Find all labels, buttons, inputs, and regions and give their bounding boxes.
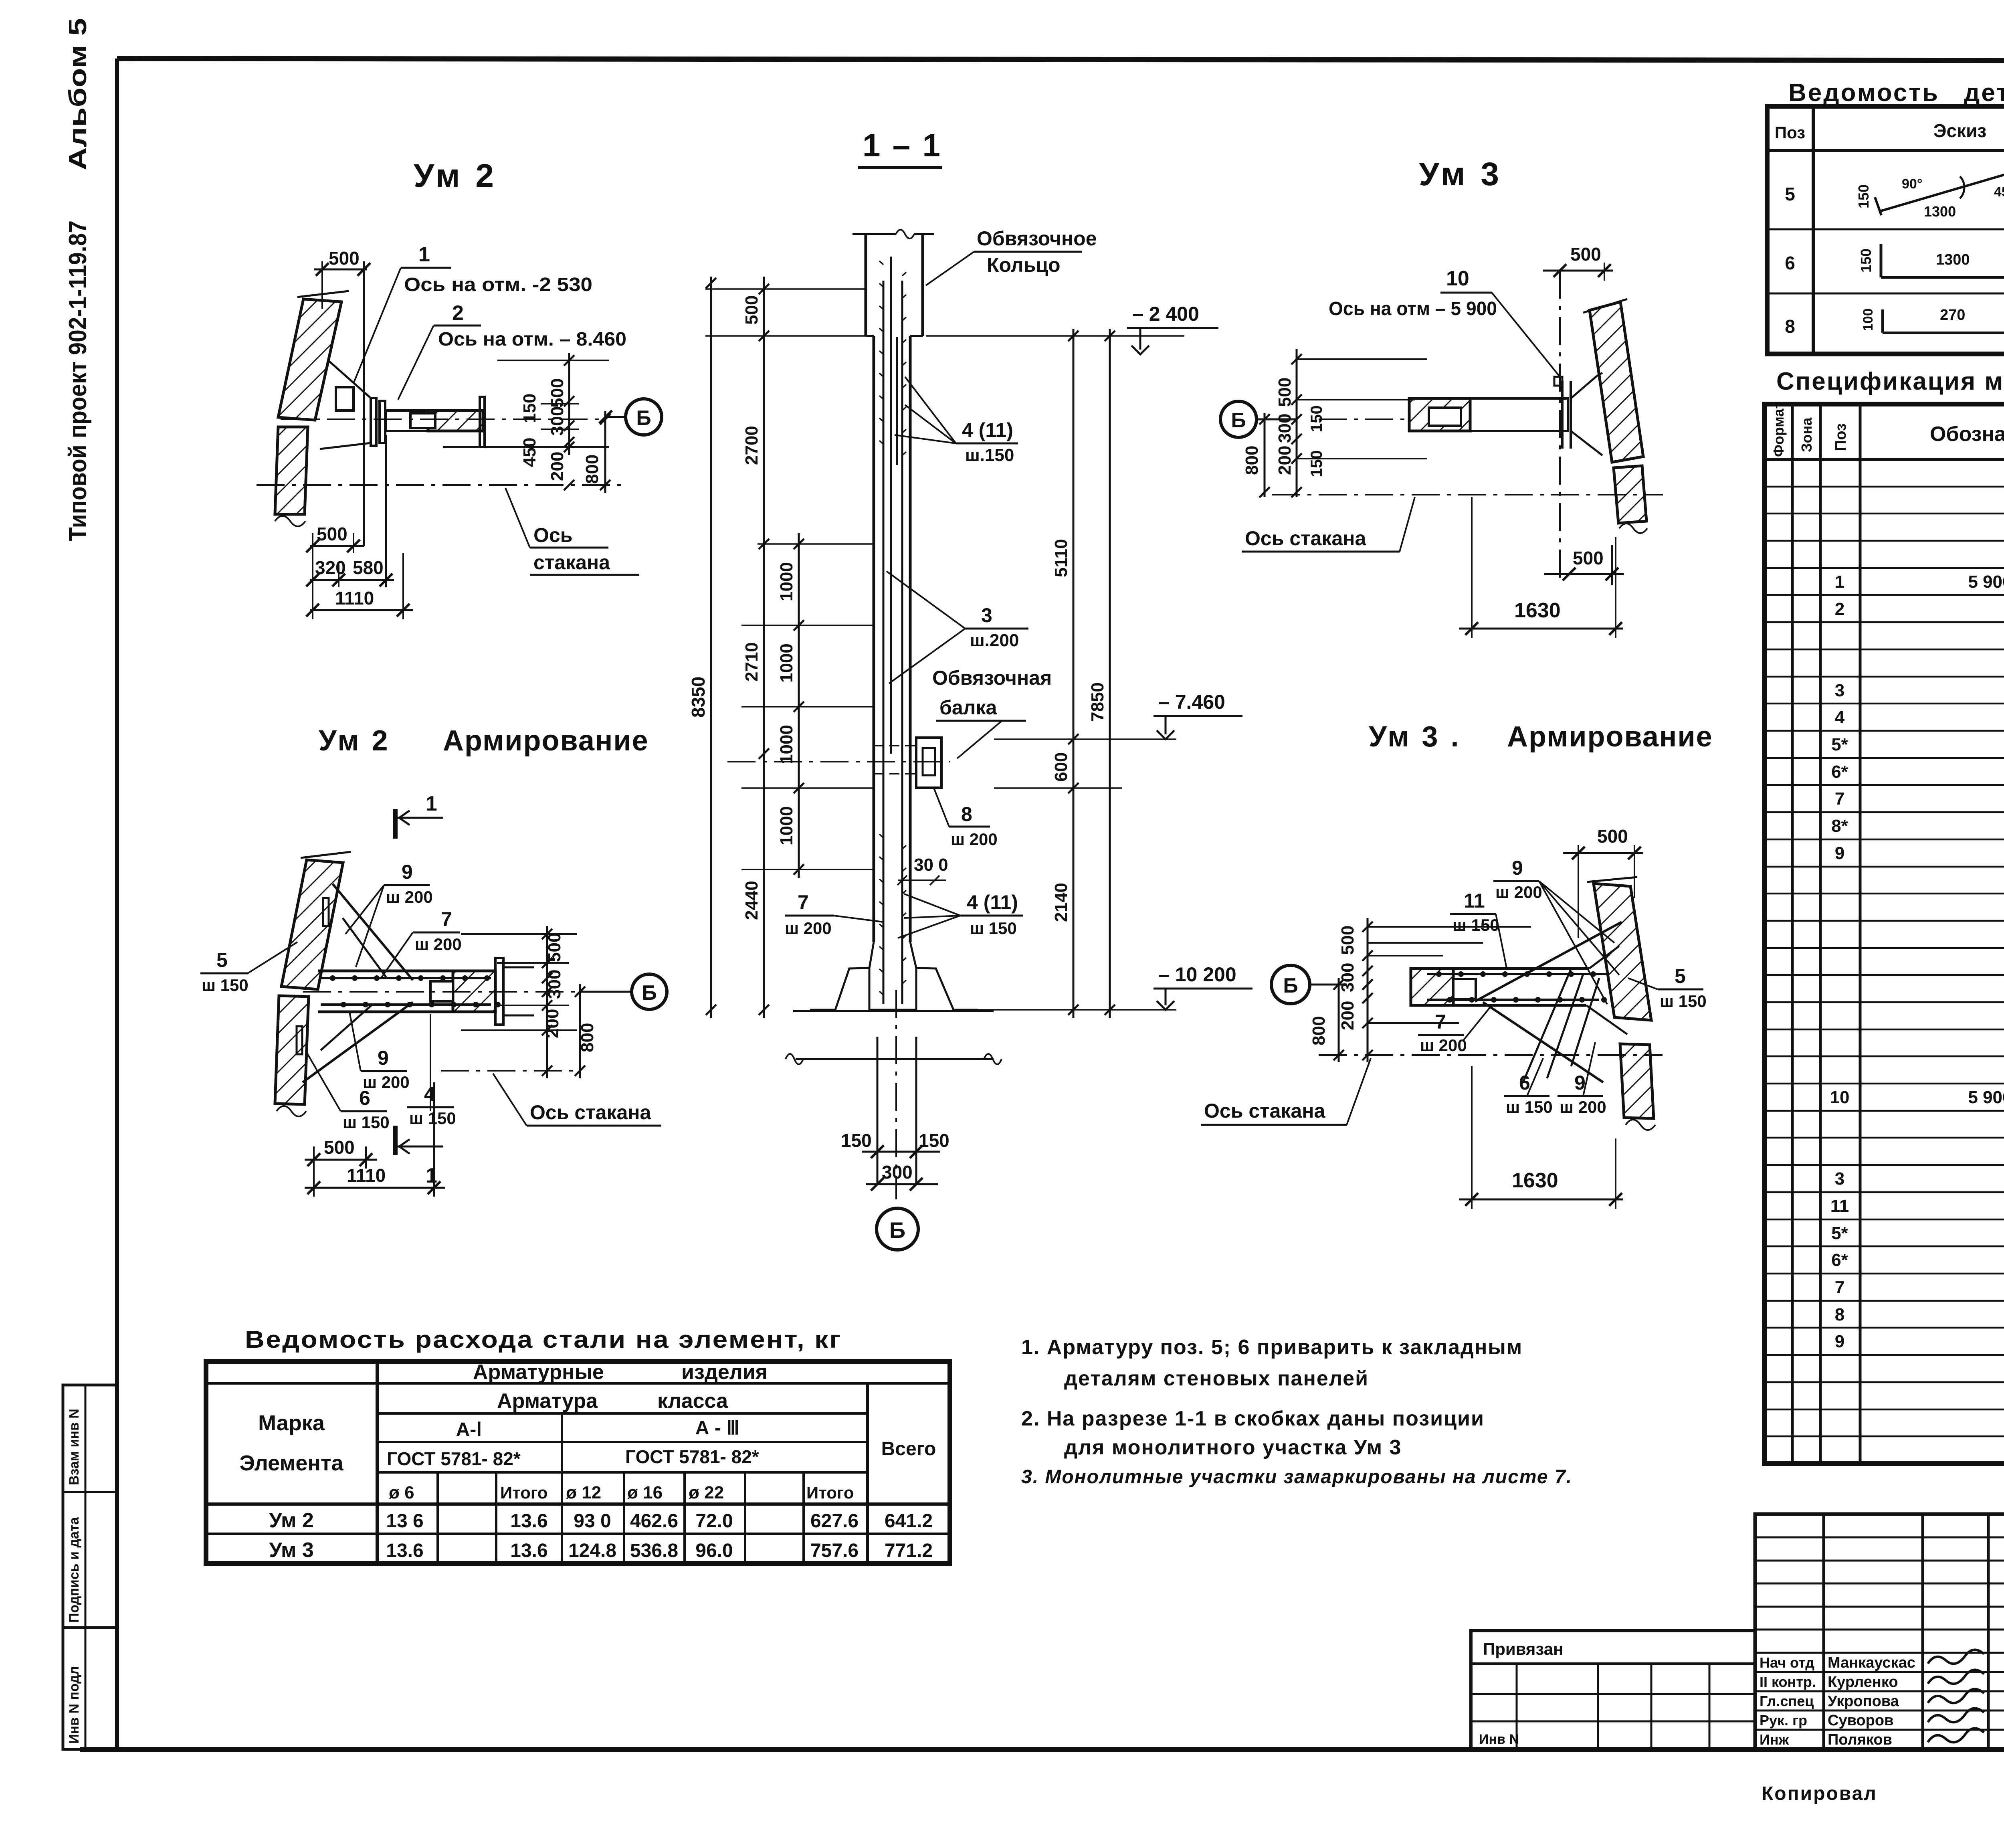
svg-text:Армирование: Армирование [443,725,649,757]
svg-text:150: 150 [919,1130,949,1151]
svg-text:1000: 1000 [777,806,796,845]
svg-text:2: 2 [452,301,464,325]
svg-text:ш 200: ш 200 [1495,883,1542,902]
svg-text:Ведомость: Ведомость [1788,79,1939,107]
svg-text:5*: 5* [1831,1223,1848,1243]
svg-text:90°: 90° [1902,176,1922,192]
Ум2 detail: upper wall panel (hatched) [278,299,341,420]
svg-text:100: 100 [1861,308,1876,331]
svg-text:Итого: Итого [500,1483,547,1502]
svg-text:Привязан: Привязан [1483,1640,1563,1658]
sketch row 8: Z-bar [1881,309,1884,333]
svg-text:7: 7 [1835,1278,1844,1297]
svg-text:Укропова: Укропова [1828,1693,1899,1710]
svg-text:Ум 2: Ум 2 [414,158,497,194]
svg-text:6*: 6* [1831,1250,1848,1270]
svg-text:627.6: 627.6 [810,1510,859,1532]
svg-text:Б: Б [642,981,657,1005]
Ум3 detail: upper wall (hatched) [1590,302,1643,462]
svg-text:Ось: Ось [533,524,572,546]
svg-text:7850: 7850 [1088,682,1107,722]
Ум2арм: section mark 1 top [393,809,398,839]
svg-text:500: 500 [547,378,567,408]
svg-text:Ось на отм. -2 530: Ось на отм. -2 530 [404,274,592,295]
Ум3арм: left end plate [1410,968,1412,1005]
svg-text:Рук. гр: Рук. гр [1760,1712,1807,1729]
svg-text:1: 1 [1835,572,1844,592]
Ум2 bottom dims [310,545,364,547]
svg-text:Арматурные: Арматурные [473,1361,604,1384]
svg-text:1630: 1630 [1514,599,1561,622]
svg-text:500: 500 [1570,244,1601,265]
Ум3 detail: wall axis vertical [1559,271,1561,582]
Ум2 detail: tie centerline [281,419,606,420]
Ум2 detail: right end plate [480,397,485,447]
svg-text:Инв N подл: Инв N подл [67,1666,82,1744]
Ум3арм: rebar horizontals with dots [1427,973,1607,975]
svg-text:Армирование: Армирование [1507,721,1713,753]
svg-text:270: 270 [1940,307,1965,324]
svg-text:Ось на отм – 5 900: Ось на отм – 5 900 [1329,298,1497,319]
svg-text:Гл.спец: Гл.спец [1760,1693,1814,1709]
svg-text:10: 10 [1830,1088,1850,1107]
svg-text:ø 12: ø 12 [566,1483,601,1502]
svg-text:Ум 3: Ум 3 [269,1539,314,1562]
svg-text:ш 150: ш 150 [409,1109,456,1128]
svg-text:класса: класса [657,1389,728,1413]
svg-text:Формат: Формат [1770,402,1787,457]
svg-text:Инв N: Инв N [1479,1732,1519,1747]
svg-text:500: 500 [1573,548,1604,568]
svg-text:Б: Б [1231,409,1246,432]
svg-text:Ум 2: Ум 2 [319,725,390,757]
svg-text:1630: 1630 [1512,1169,1558,1192]
svg-text:5110: 5110 [1051,539,1071,577]
svg-text:8: 8 [1785,316,1795,337]
Ведомость деталей table [1767,106,2004,354]
svg-text:5: 5 [1785,184,1795,204]
1-1: ring top walls [865,234,867,336]
svg-text:А - Ⅲ: А - Ⅲ [695,1417,739,1439]
svg-text:Итого: Итого [806,1483,854,1502]
Ум3арм: tie outline [1411,967,1589,970]
svg-text:Кольцо: Кольцо [987,254,1061,276]
svg-text:9: 9 [402,861,413,883]
svg-text:ш 150: ш 150 [343,1113,390,1132]
svg-text:641.2: 641.2 [885,1510,933,1532]
svg-text:8: 8 [961,803,972,825]
Ум3 detail: left hatched block [1409,398,1470,431]
svg-text:5*: 5* [1831,735,1848,754]
svg-text:Элемента: Элемента [239,1451,343,1475]
Ум2арм: tie hatched block right [453,971,495,1012]
title block [1755,1514,2004,1749]
svg-text:ГОСТ 5781- 82*: ГОСТ 5781- 82* [387,1448,521,1469]
svg-text:1: 1 [418,243,430,266]
1-1: rebar bars [883,281,885,1004]
svg-text:320: 320 [315,557,346,578]
svg-text:13.6: 13.6 [510,1540,547,1561]
svg-text:для монолитного участка: для монолитного участка Ум 3 [1064,1436,1402,1459]
svg-text:Подпись и дата: Подпись и дата [67,1516,82,1623]
Ум3 detail: funnel to wall [1571,376,1597,398]
Ум3 centerline [1272,494,1663,495]
svg-text:Ось стакана: Ось стакана [530,1101,651,1124]
svg-text:1300: 1300 [1936,251,1970,268]
Ум3арм: upper wall (hatched) [1594,884,1651,1020]
svg-text:8: 8 [1835,1305,1844,1324]
svg-text:800: 800 [1242,446,1262,475]
Ум2арм: tie outline [318,970,495,973]
svg-text:3: 3 [1835,681,1844,700]
svg-text:изделия: изделия [681,1361,768,1384]
1-1: footing [810,942,874,1010]
svg-text:7: 7 [798,891,809,914]
Ум2арм: upper wall (hatched) [281,860,343,989]
svg-text:4 (11): 4 (11) [967,891,1018,914]
svg-text:1000: 1000 [777,643,796,683]
svg-text:6: 6 [1785,253,1795,273]
svg-text:1: 1 [426,792,437,815]
svg-text:2700: 2700 [742,426,762,465]
svg-text:300: 300 [1275,414,1295,443]
Ум3 detail: channel notch [1429,408,1461,426]
1-1: node Б circle bottom [877,1208,918,1250]
Ум3арм: funnel to wall [1589,946,1619,968]
Спецификация table grid [1764,404,2004,1464]
svg-text:Б: Б [889,1217,905,1243]
svg-text:45°: 45° [1994,184,2004,200]
svg-text:ш 200: ш 200 [785,919,832,938]
svg-text:150: 150 [520,394,539,423]
svg-text:ш 200: ш 200 [415,935,462,954]
svg-text:3. Монолитные участки замар: 3. Монолитные участки замаркированы на л… [1021,1466,1572,1488]
svg-text:– 2 400: – 2 400 [1132,303,1199,325]
svg-text:деталей: деталей [1964,79,2004,107]
Ум2 detail: stakan axis [257,484,621,486]
svg-text:5 900-2: 5 900-2 [1968,1088,2004,1107]
svg-text:Всего: Всего [881,1438,936,1460]
svg-text:1000: 1000 [777,562,796,601]
svg-text:деталям стеновых панелей: деталям стеновых панелей [1064,1367,1369,1390]
svg-text:7: 7 [441,908,452,930]
svg-text:ш.200: ш.200 [970,631,1019,650]
svg-text:3: 3 [1835,1169,1844,1189]
svg-text:ш 150: ш 150 [1506,1098,1553,1116]
1-1: right dim chains [1073,329,1075,1018]
svg-text:ш 150: ш 150 [970,919,1017,938]
Ум2арм: section mark 1 bottom [393,1126,398,1155]
svg-text:Ведомость расхода стали на: Ведомость расхода стали на элемент, кг [245,1326,842,1353]
svg-text:6: 6 [359,1087,370,1109]
svg-text:800: 800 [582,455,602,484]
svg-text:Инж: Инж [1760,1731,1789,1748]
svg-text:ш 150: ш 150 [202,976,248,995]
svg-text:Арматура: Арматура [497,1389,598,1413]
svg-text:Поз: Поз [1832,423,1849,451]
svg-text:500: 500 [545,933,564,962]
svg-text:ш 200: ш 200 [1420,1036,1467,1055]
svg-text:500: 500 [1275,378,1295,407]
border frame [117,59,2004,61]
svg-text:Суворов: Суворов [1828,1712,1893,1729]
svg-text:Альбом 5: Альбом 5 [64,18,92,170]
svg-text:200: 200 [1338,1001,1358,1030]
svg-text:9: 9 [1835,1332,1844,1351]
svg-text:11: 11 [1464,890,1485,912]
Ум2арм: rebar horizontals with dots [321,977,491,979]
svg-text:Обвязочная: Обвязочная [932,667,1052,689]
Ум2 detail: lower wall panel (hatched) [275,427,308,514]
svg-text:ø 16: ø 16 [627,1483,663,1502]
Ум2арм: diagonal bars [333,884,413,980]
svg-text:Обвязочное: Обвязочное [977,227,1097,250]
svg-text:9: 9 [1835,843,1844,863]
svg-text:1110: 1110 [335,588,374,609]
Ум2 detail: channel notch [410,413,435,428]
svg-text:500: 500 [742,295,762,325]
svg-text:Курленко: Курленко [1828,1674,1898,1690]
svg-text:300: 300 [882,1162,913,1183]
svg-text:13 6: 13 6 [386,1510,423,1532]
svg-text:757.6: 757.6 [810,1540,859,1561]
svg-text:Марка: Марка [258,1411,325,1435]
1-1: column walls [873,336,875,942]
Ум2 detail: embedded plate on wall [336,387,354,410]
1-1: left dim chains [710,277,712,1018]
Ум2 detail: tie flange plates [371,398,376,446]
svg-text:Ось стакана: Ось стакана [1204,1100,1325,1122]
svg-text:1000: 1000 [777,725,796,764]
svg-text:11: 11 [1830,1196,1849,1216]
svg-text:Ум 3: Ум 3 [1419,156,1502,192]
svg-text:Поляков: Поляков [1828,1731,1892,1748]
1-1: below-ground column lines [877,1037,879,1184]
title block left box [1471,1631,1755,1749]
svg-text:ш 200: ш 200 [1560,1098,1606,1116]
Ум3 detail: lower wall (hatched) [1614,466,1646,523]
svg-text:4 (11): 4 (11) [962,419,1013,441]
svg-text:150: 150 [1308,450,1325,477]
svg-text:150: 150 [1858,249,1874,273]
Ум2арм: channel notch [430,981,453,1001]
svg-text:93 0: 93 0 [574,1510,611,1532]
svg-text:10: 10 [1446,267,1469,290]
Ум2арм: centerline + Б [303,991,577,993]
svg-text:Нач отд: Нач отд [1760,1654,1814,1671]
svg-text:2. На разрезе 1-1 в скобках: 2. На разрезе 1-1 в скобках даны позиции [1021,1407,1485,1430]
Ум3 detail: right flange [1561,381,1564,449]
svg-text:5: 5 [1675,965,1686,987]
svg-text:5: 5 [216,949,228,971]
svg-text:8350: 8350 [688,677,709,718]
svg-text:балка: балка [939,696,997,719]
Ведомость расхода стали table [206,1361,950,1563]
Ум2арм: right dim chain [546,926,548,1078]
Ум2 node Б circle [626,399,662,435]
svg-text:9: 9 [378,1047,389,1069]
Ум2арм: embedded plates on walls [323,898,329,926]
svg-text:13.6: 13.6 [386,1540,423,1561]
svg-text:Типовой проект 902-1-119.87: Типовой проект 902-1-119.87 [64,220,92,541]
Ум2 top dim 500 [314,269,367,271]
svg-text:А-Ⅰ: А-Ⅰ [456,1419,482,1440]
svg-text:72.0: 72.0 [695,1510,733,1532]
svg-text:96.0: 96.0 [695,1540,733,1561]
svg-text:2: 2 [1835,599,1844,619]
Ум2 right dim chains [497,360,609,361]
Ум2арм: lower wall (hatched) [275,996,309,1104]
svg-text:Ум 3 .: Ум 3 . [1369,721,1461,753]
svg-text:200: 200 [1275,446,1295,475]
svg-text:800: 800 [578,1023,597,1052]
svg-text:300: 300 [547,406,567,436]
svg-text:600: 600 [1051,752,1071,782]
Ум3 node Б circle [1220,401,1257,437]
svg-text:3: 3 [981,604,992,627]
svg-text:800: 800 [1309,1016,1329,1045]
svg-text:Б: Б [1283,974,1298,997]
svg-text:Взам инв N: Взам инв N [67,1409,82,1485]
svg-text:ш 200: ш 200 [386,888,433,906]
1-1: ground line [793,1010,994,1012]
Ум3 detail: tie bar [1409,398,1568,431]
svg-text:ø 6: ø 6 [389,1483,414,1502]
svg-text:ш.150: ш.150 [965,445,1014,465]
svg-text:500: 500 [1338,926,1358,955]
svg-text:450: 450 [520,438,539,467]
svg-text:580: 580 [353,557,384,578]
svg-text:500: 500 [1597,826,1628,847]
svg-text:Зона: Зона [1798,417,1815,452]
svg-text:300: 300 [1338,963,1358,992]
Ум3арм: left dim chain [1367,918,1369,1062]
svg-text:4: 4 [1835,708,1845,727]
svg-text:9: 9 [1512,857,1523,879]
svg-text:30 0: 30 0 [914,855,948,875]
svg-text:150: 150 [1855,184,1872,208]
svg-text:Б: Б [636,406,651,430]
svg-text:500: 500 [329,248,360,269]
svg-text:Спецификация монолитных: Спецификация монолитных [1776,368,2004,395]
svg-text:462.6: 462.6 [630,1510,678,1532]
svg-text:ш 200: ш 200 [951,830,998,849]
svg-text:300: 300 [545,970,564,999]
svg-text:Ось стакана: Ось стакана [1245,527,1366,550]
svg-text:Поз: Поз [1775,123,1805,142]
svg-text:2710: 2710 [742,642,762,681]
svg-text:Копировал: Копировал [1762,1783,1877,1804]
svg-text:150: 150 [841,1130,872,1151]
Ум3арм: channel notch [1453,979,1476,999]
svg-text:Обозначение: Обозначение [1930,423,2004,446]
svg-text:500: 500 [317,524,347,544]
Ум3 left dim chain [1296,349,1298,497]
Ум2 detail: tie bar [386,410,483,431]
svg-text:ГОСТ 5781- 82*: ГОСТ 5781- 82* [625,1446,759,1467]
svg-text:771.2: 771.2 [885,1540,933,1561]
svg-text:536.8: 536.8 [630,1540,678,1561]
Ум3арм: centerline + Б [1319,1054,1663,1056]
svg-text:200: 200 [543,1009,562,1038]
svg-text:8*: 8* [1831,816,1848,836]
svg-text:ш 150: ш 150 [1660,992,1707,1011]
svg-text:200: 200 [547,452,567,481]
svg-text:6*: 6* [1831,762,1848,782]
Ум2 detail: tie hatched block [428,410,483,431]
svg-text:124.8: 124.8 [568,1540,616,1561]
1-1: base dim line with breaks [796,1058,994,1060]
svg-text:1300: 1300 [1924,203,1956,220]
svg-text:Ось на отм. – 8.460: Ось на отм. – 8.460 [438,329,626,350]
svg-text:Манкаускас: Манкаускас [1828,1654,1915,1671]
svg-text:7: 7 [1835,789,1844,809]
1-1: обвязочная балка box [916,738,941,788]
svg-text:2140: 2140 [1051,883,1071,922]
svg-text:ø 22: ø 22 [689,1483,724,1502]
Ум3арм: left hatched block [1411,968,1453,1005]
svg-text:– 7.460: – 7.460 [1158,691,1225,713]
svg-text:7: 7 [1435,1011,1446,1033]
svg-text:Ум 2: Ум 2 [269,1509,314,1532]
svg-text:1. Арматуру поз. 5; 6 при: 1. Арматуру поз. 5; 6 приварить к заклад… [1021,1336,1523,1359]
svg-text:13.6: 13.6 [510,1510,547,1532]
1-1: bottom dims 150/150/300 [862,1151,940,1153]
svg-text:Эскиз: Эскиз [1933,120,1986,141]
svg-text:стакана: стакана [533,551,610,574]
svg-text:1: 1 [426,1164,437,1187]
svg-text:ш 150: ш 150 [1452,916,1499,934]
svg-text:5 900-2: 5 900-2 [1968,572,2004,592]
sketch row 5: bent bar [1880,168,2004,211]
svg-text:– 10 200: – 10 200 [1158,963,1236,986]
svg-text:2440: 2440 [742,881,762,920]
svg-text:II контр.: II контр. [1760,1674,1816,1690]
Ум2арм: bottom dims [305,1159,377,1161]
1-1: left extension lines [705,288,866,290]
Ум3арм: diagonal bars [1475,922,1622,1001]
Ум2арм: right end plate [495,958,503,1025]
Ум3арм: lower wall (hatched) [1620,1044,1654,1118]
sketch row 6: L-bar [1880,244,1883,277]
margin stamp strip [63,1385,117,1749]
Ум2 detail: joint funnel [329,361,371,398]
svg-text:500: 500 [324,1137,355,1158]
svg-text:1 – 1: 1 – 1 [863,127,942,163]
